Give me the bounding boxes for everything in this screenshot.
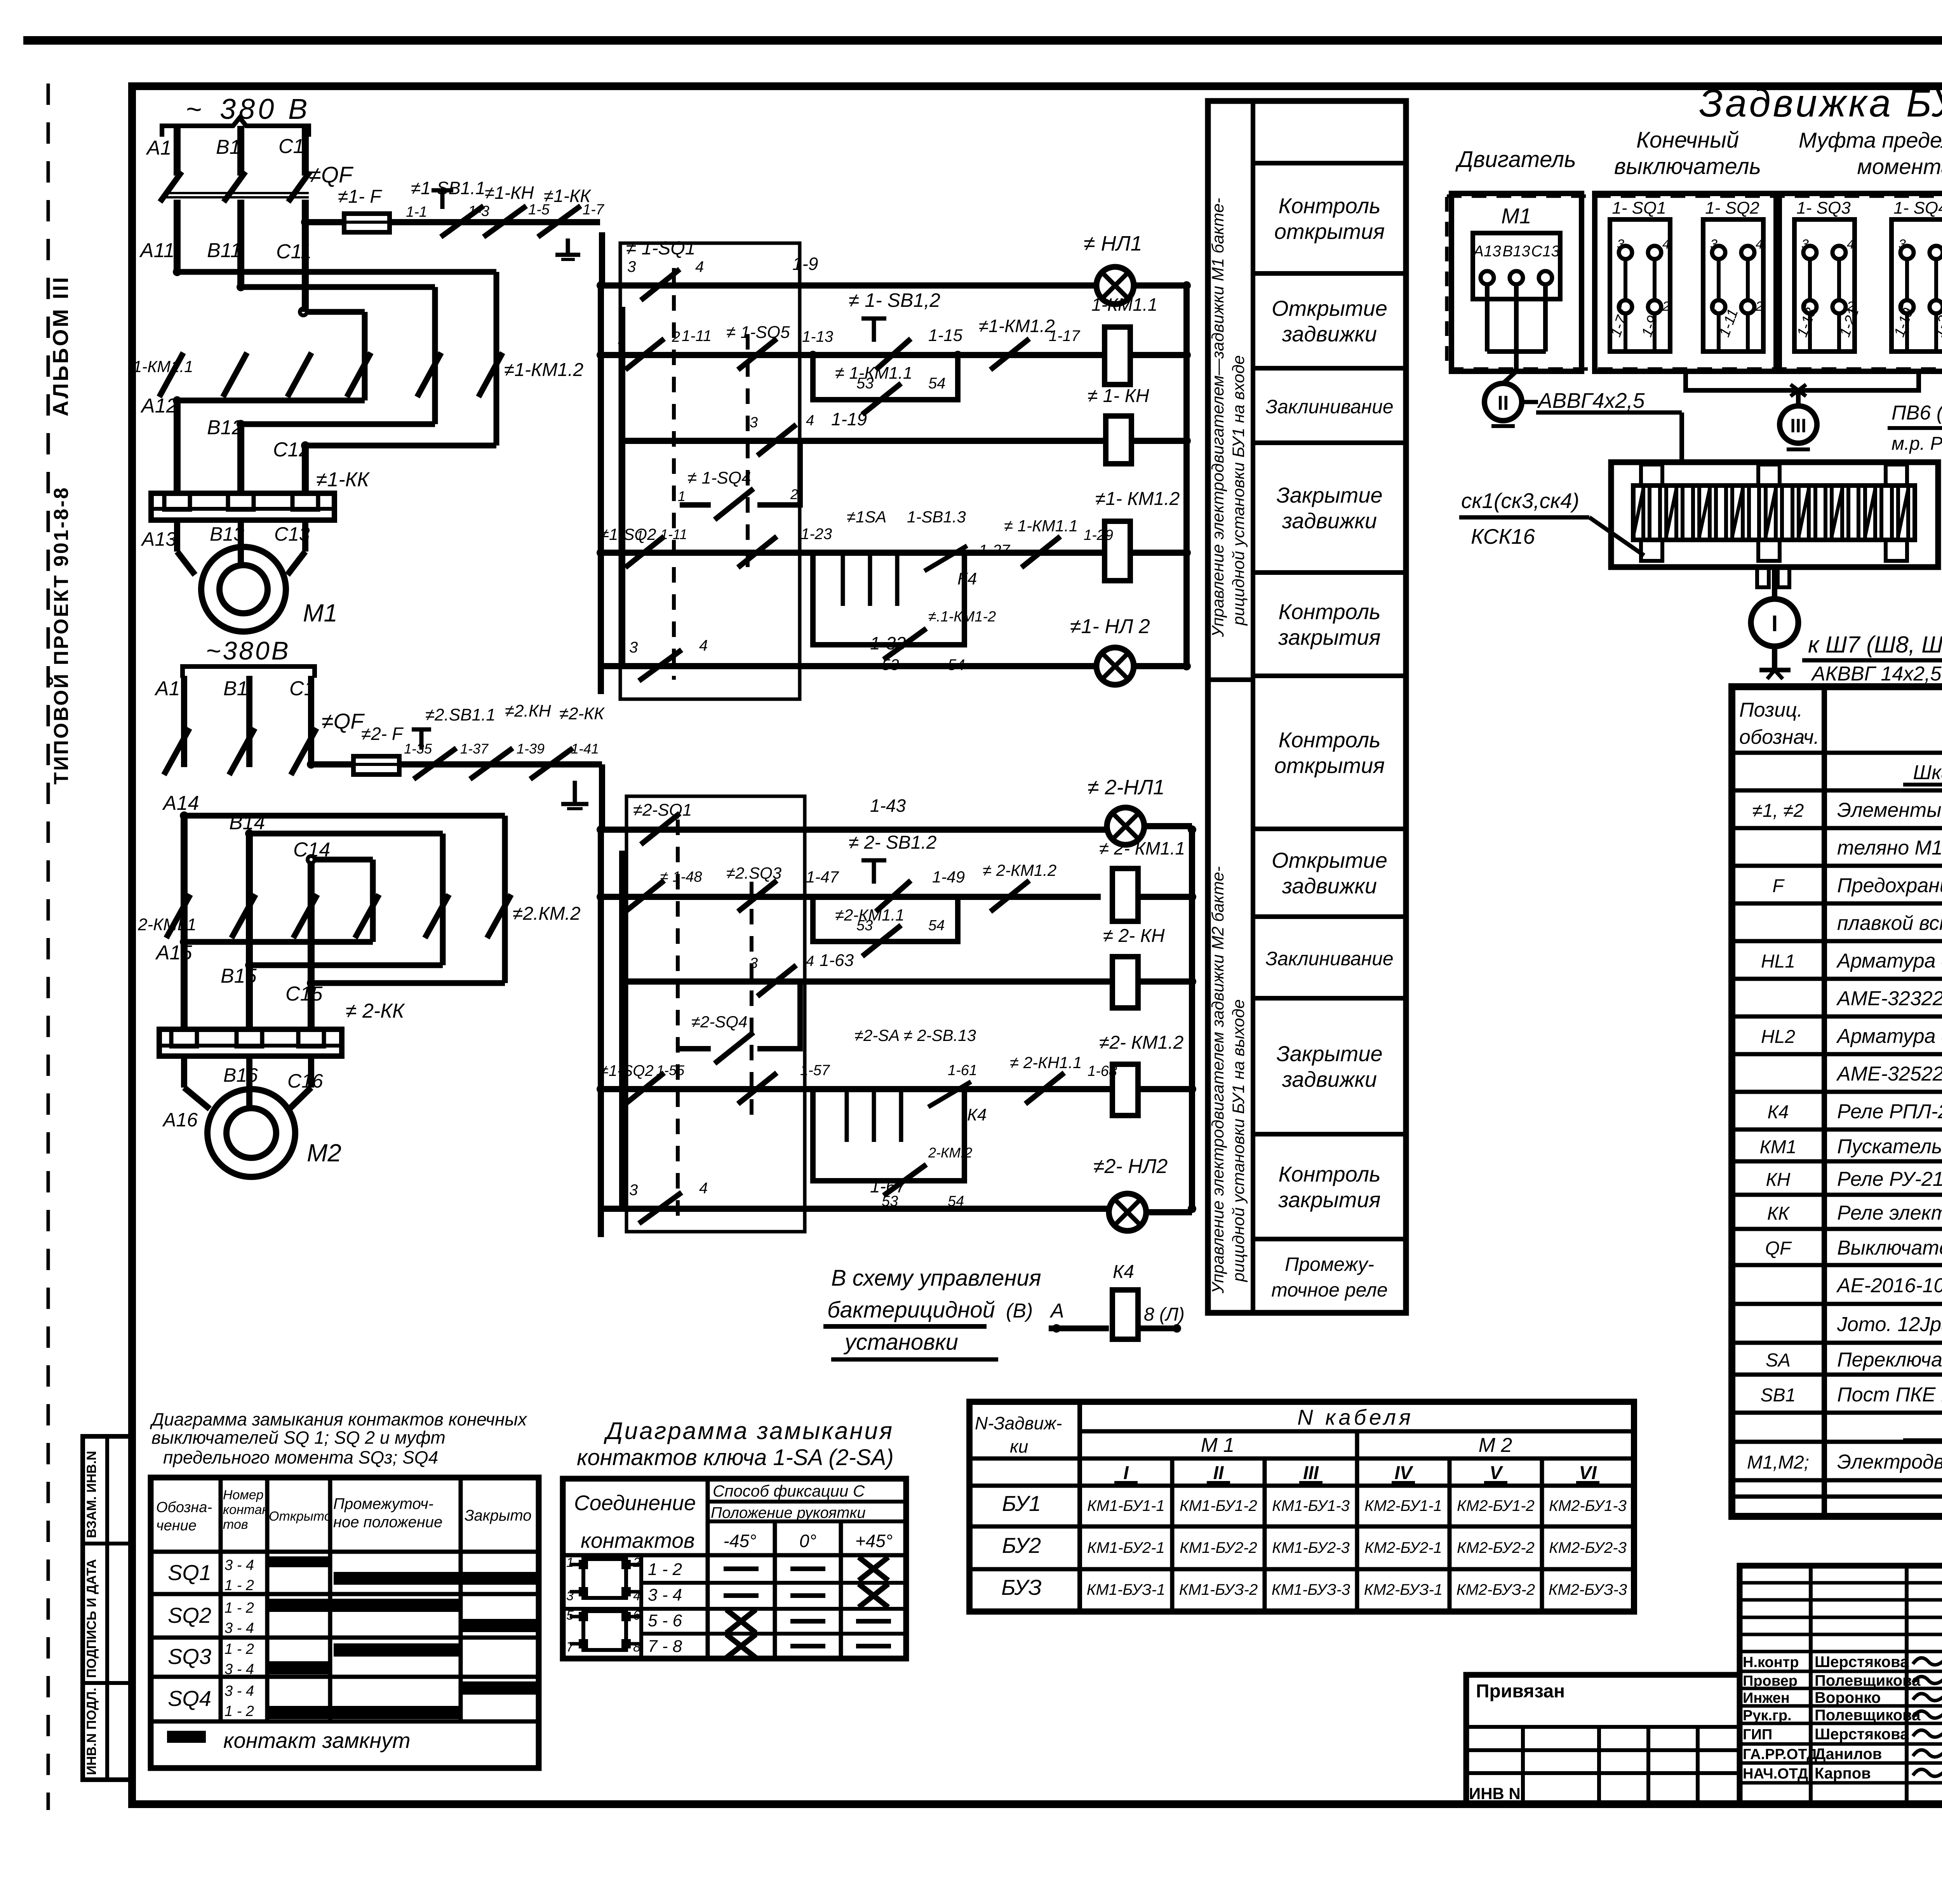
svg-text:1-67: 1-67 bbox=[870, 1176, 906, 1196]
svg-text:КСК16: КСК16 bbox=[1471, 524, 1535, 548]
svg-text:Муфта предельного: Муфта предельного bbox=[1799, 128, 1942, 152]
svg-text:4: 4 bbox=[1756, 237, 1763, 252]
svg-text:1-23: 1-23 bbox=[801, 526, 832, 543]
svg-text:≠1- F: ≠1- F bbox=[338, 186, 382, 207]
svg-text:открытия: открытия bbox=[1274, 219, 1385, 244]
svg-text:1-37: 1-37 bbox=[460, 741, 489, 757]
svg-text:К4: К4 bbox=[957, 569, 977, 588]
svg-text:ГИП: ГИП bbox=[1743, 1726, 1772, 1743]
svg-text:Управление электродвигателем—з: Управление электродвигателем—задвижки М1… bbox=[1209, 198, 1227, 637]
svg-text:53: 53 bbox=[856, 375, 874, 392]
svg-text:М 1: М 1 bbox=[1201, 1434, 1235, 1457]
svg-text:задвижки: задвижки bbox=[1282, 508, 1377, 533]
svg-text:1-55: 1-55 bbox=[656, 1062, 685, 1078]
svg-text:рицидной установки БУ1 на выхо: рицидной установки БУ1 на выходе bbox=[1229, 999, 1248, 1283]
svg-text:≠1-SQ2: ≠1-SQ2 bbox=[600, 525, 656, 543]
svg-text:4: 4 bbox=[695, 258, 704, 275]
svg-text:Карпов: Карпов bbox=[1815, 1765, 1871, 1782]
svg-text:1-29: 1-29 bbox=[1084, 527, 1113, 543]
svg-text:С13: С13 bbox=[1531, 243, 1559, 260]
svg-text:А1: А1 bbox=[154, 677, 180, 700]
svg-text:1: 1 bbox=[566, 1555, 574, 1570]
svg-text:1 - 2: 1 - 2 bbox=[224, 1703, 254, 1720]
svg-text:3 - 4: 3 - 4 bbox=[224, 1620, 254, 1636]
svg-text:3 - 4: 3 - 4 bbox=[224, 1557, 254, 1573]
svg-text:КМ1-БУ2-3: КМ1-БУ2-3 bbox=[1272, 1539, 1350, 1556]
svg-text:Контроль: Контроль bbox=[1278, 727, 1380, 752]
svg-text:3: 3 bbox=[566, 1589, 574, 1603]
svg-text:+45°: +45° bbox=[855, 1531, 893, 1551]
svg-text:Данилов: Данилов bbox=[1815, 1746, 1882, 1763]
svg-text:Электродвигатель АОЛ-11-2ФЗ-38: Электродвигатель АОЛ-11-2ФЗ-380В-1,1кВт bbox=[1837, 1451, 1942, 1473]
svg-text:Полевщикова: Полевщикова bbox=[1815, 1707, 1921, 1724]
svg-text:≠ 2-КН1.1: ≠ 2-КН1.1 bbox=[1010, 1053, 1082, 1072]
svg-text:1-57: 1-57 bbox=[800, 1062, 830, 1079]
svg-text:А12: А12 bbox=[140, 395, 177, 417]
svg-text:М1,М2;: М1,М2; bbox=[1747, 1452, 1809, 1473]
svg-text:V: V bbox=[1490, 1463, 1503, 1483]
svg-text:1-13: 1-13 bbox=[802, 328, 833, 345]
svg-text:380 В: 380 В bbox=[220, 93, 310, 125]
svg-text:≠ НЛ1: ≠ НЛ1 bbox=[1084, 232, 1142, 255]
svg-text:Открыто: Открыто bbox=[269, 1509, 332, 1524]
svg-text:Закрытие: Закрытие bbox=[1276, 483, 1382, 507]
svg-text:6: 6 bbox=[633, 1608, 640, 1623]
svg-text:к Ш7 (Ш8, Ш9): к Ш7 (Ш8, Ш9) bbox=[1808, 632, 1942, 658]
svg-text:3: 3 bbox=[750, 414, 758, 431]
svg-text:КМ2-БУ2-2: КМ2-БУ2-2 bbox=[1457, 1539, 1535, 1556]
svg-text:КМ1-БУЗ-1: КМ1-БУЗ-1 bbox=[1087, 1581, 1165, 1598]
svg-text:Контроль: Контроль bbox=[1278, 1162, 1380, 1186]
svg-text:Рук.гр.: Рук.гр. bbox=[1743, 1707, 1792, 1724]
svg-text:1-43: 1-43 bbox=[870, 795, 906, 816]
svg-text:Закрытие: Закрытие bbox=[1276, 1041, 1382, 1066]
svg-text:≠2.SB1.1: ≠2.SB1.1 bbox=[425, 705, 496, 724]
svg-text:закрытия: закрытия bbox=[1278, 625, 1380, 649]
svg-text:М2: М2 bbox=[307, 1139, 341, 1167]
svg-text:≠1- НЛ 2: ≠1- НЛ 2 bbox=[1070, 615, 1150, 638]
svg-text:ГА.РР.ОТД: ГА.РР.ОТД bbox=[1743, 1746, 1817, 1763]
svg-text:КК: КК bbox=[1767, 1203, 1790, 1224]
svg-text:НАЧ.ОТД: НАЧ.ОТД bbox=[1743, 1766, 1808, 1782]
svg-text:Открытие: Открытие bbox=[1272, 848, 1387, 872]
svg-text:4: 4 bbox=[806, 412, 814, 429]
svg-text:В13: В13 bbox=[210, 523, 244, 545]
svg-text:≠2-SA ≠ 2-SB.13: ≠2-SA ≠ 2-SB.13 bbox=[854, 1026, 976, 1044]
svg-text:3: 3 bbox=[1898, 237, 1906, 252]
svg-text:1-КМ1.1: 1-КМ1.1 bbox=[133, 357, 193, 376]
svg-text:1 - 2: 1 - 2 bbox=[648, 1560, 682, 1579]
svg-text:Позиц.: Позиц. bbox=[1739, 699, 1803, 721]
svg-text:2: 2 bbox=[1755, 299, 1763, 314]
svg-text:3: 3 bbox=[1710, 237, 1718, 252]
svg-text:2: 2 bbox=[790, 486, 798, 502]
svg-text:АКВВГ 14х2,5: АКВВГ 14х2,5 bbox=[1811, 663, 1942, 685]
svg-text:КМ1-БУ1-3: КМ1-БУ1-3 bbox=[1272, 1497, 1350, 1514]
svg-text:Элементы управления электродви: Элементы управления электродвига- bbox=[1837, 799, 1942, 821]
svg-text:≠2- F: ≠2- F bbox=[361, 724, 404, 744]
svg-text:контактов ключа 1-SA (2-SA): контактов ключа 1-SA (2-SA) bbox=[577, 1445, 894, 1470]
svg-text:АЕ-2016-10НУЗ. 380В, 50Гц Jрас: АЕ-2016-10НУЗ. 380В, 50Гц Jрасч. 5А bbox=[1836, 1274, 1942, 1297]
svg-text:ИНВ N:: ИНВ N: bbox=[1469, 1784, 1526, 1803]
svg-text:4: 4 bbox=[633, 1589, 640, 1603]
svg-text:ки: ки bbox=[1010, 1436, 1028, 1457]
svg-text:3: 3 bbox=[1801, 237, 1809, 252]
svg-text:БУЗ: БУЗ bbox=[1001, 1575, 1042, 1599]
svg-text:≠ 1- SB1,2: ≠ 1- SB1,2 bbox=[849, 289, 940, 311]
svg-text:КМ1-БУ2-1: КМ1-БУ2-1 bbox=[1087, 1539, 1165, 1556]
svg-text:обознач.: обознач. bbox=[1739, 726, 1819, 748]
svg-text:Шерстякова: Шерстякова bbox=[1815, 1726, 1909, 1743]
svg-text:А14: А14 bbox=[162, 792, 199, 815]
svg-text:≠2-SQ1: ≠2-SQ1 bbox=[633, 801, 692, 820]
svg-text:≠1-КМ1.2: ≠1-КМ1.2 bbox=[504, 360, 583, 380]
svg-text:≠ 2-КК: ≠ 2-КК bbox=[346, 1000, 405, 1022]
svg-text:53: 53 bbox=[856, 917, 873, 934]
svg-text:Промежу-: Промежу- bbox=[1285, 1253, 1374, 1275]
svg-text:≠ 2-НЛ1: ≠ 2-НЛ1 bbox=[1088, 776, 1165, 799]
svg-text:1- SQ2: 1- SQ2 bbox=[1705, 198, 1759, 218]
svg-text:III: III bbox=[1790, 415, 1806, 437]
svg-text:задвижки: задвижки bbox=[1282, 1067, 1377, 1091]
svg-text:Способ фиксации С: Способ фиксации С bbox=[713, 1482, 865, 1500]
svg-text:теляно М1, М2.: теляно М1, М2. bbox=[1837, 837, 1942, 859]
svg-text:М1: М1 bbox=[303, 599, 338, 627]
svg-text:54: 54 bbox=[928, 917, 945, 934]
svg-text:Привязан: Привязан bbox=[1476, 1681, 1565, 1702]
svg-text:КМ2-БУ1-1: КМ2-БУ1-1 bbox=[1364, 1497, 1442, 1514]
svg-text:Контроль: Контроль bbox=[1278, 599, 1380, 624]
svg-text:2-КМ.2: 2-КМ.2 bbox=[928, 1145, 972, 1161]
svg-text:≠1- КМ1.2: ≠1- КМ1.2 bbox=[1095, 489, 1180, 509]
svg-text:Открытие: Открытие bbox=[1272, 296, 1387, 320]
svg-text:1-3: 1-3 bbox=[468, 203, 489, 219]
svg-text:ск1(ск3,ск4): ск1(ск3,ск4) bbox=[1461, 489, 1579, 513]
svg-text:Заклинивание: Заклинивание bbox=[1265, 948, 1393, 969]
svg-text:КМ1-БУЗ-3: КМ1-БУЗ-3 bbox=[1272, 1581, 1350, 1598]
svg-text:≠ 1-SQ1: ≠ 1-SQ1 bbox=[626, 238, 695, 259]
svg-text:5: 5 bbox=[566, 1608, 574, 1623]
svg-text:Шерстякова: Шерстякова bbox=[1815, 1653, 1909, 1671]
svg-text:3: 3 bbox=[627, 258, 636, 275]
svg-text:ИНВ.N ПОДЛ.: ИНВ.N ПОДЛ. bbox=[84, 1688, 99, 1775]
svg-text:Выключатель автоматический: Выключатель автоматический bbox=[1837, 1237, 1942, 1259]
svg-text:плавкой вставкой ПВДТ-1УЗ: плавкой вставкой ПВДТ-1УЗ bbox=[1837, 912, 1942, 935]
svg-text:закрытия: закрытия bbox=[1278, 1187, 1380, 1212]
svg-text:В1: В1 bbox=[216, 136, 241, 158]
svg-text:≠2.SQ3: ≠2.SQ3 bbox=[726, 864, 781, 882]
svg-text:≠1-КМ1.2: ≠1-КМ1.2 bbox=[979, 316, 1055, 336]
svg-text:≠ 2- КМ1.1: ≠ 2- КМ1.1 bbox=[1099, 838, 1185, 858]
svg-text:3: 3 bbox=[629, 1182, 638, 1199]
svg-text:1-41: 1-41 bbox=[571, 741, 599, 757]
svg-text:Конечный: Конечный bbox=[1636, 127, 1739, 153]
svg-text:4: 4 bbox=[806, 953, 814, 969]
svg-text:КН: КН bbox=[1766, 1170, 1791, 1190]
svg-text:точное реле: точное реле bbox=[1271, 1279, 1388, 1301]
svg-text:ПОДПИСЬ И ДАТА: ПОДПИСЬ И ДАТА bbox=[84, 1559, 99, 1678]
svg-text:≠2- КМ1.2: ≠2- КМ1.2 bbox=[1099, 1032, 1183, 1053]
svg-text:SQ2: SQ2 bbox=[168, 1603, 211, 1627]
svg-text:≠QF: ≠QF bbox=[322, 709, 365, 733]
svg-text:III: III bbox=[1303, 1463, 1319, 1483]
svg-text:Шкаф управления ш7 (ш8, ш9): Шкаф управления ш7 (ш8, ш9) bbox=[1913, 761, 1942, 784]
svg-text:Jото. 12Jрасч.; защита I Р00.: Jото. 12Jрасч.; защита I Р00. bbox=[1837, 1313, 1942, 1336]
svg-text:Пускатель ПМЛ150004~220В: Пускатель ПМЛ150004~220В bbox=[1837, 1135, 1942, 1158]
svg-text:м.р. РЗ-Ц-Х29: м.р. РЗ-Ц-Х29 bbox=[1892, 433, 1942, 454]
svg-text:3: 3 bbox=[750, 955, 758, 971]
svg-text:Арматура светосигнальная ~ 220: Арматура светосигнальная ~ 220В bbox=[1836, 1025, 1942, 1048]
svg-text:≠2.КМ.2: ≠2.КМ.2 bbox=[513, 903, 581, 924]
svg-text:≠ 1-SQ5: ≠ 1-SQ5 bbox=[726, 323, 790, 342]
svg-text:SQ3: SQ3 bbox=[168, 1644, 211, 1669]
svg-text:1 - 2: 1 - 2 bbox=[224, 1641, 254, 1657]
svg-text:Диаграмма замыкания контактов: Диаграмма замыкания контактов конечных bbox=[150, 1409, 527, 1429]
svg-text:HL1: HL1 bbox=[1761, 951, 1795, 972]
svg-text:SA: SA bbox=[1766, 1350, 1791, 1371]
svg-text:≠2- НЛ2: ≠2- НЛ2 bbox=[1093, 1155, 1168, 1178]
svg-text:Контроль: Контроль bbox=[1278, 193, 1380, 218]
svg-text:Предохранитель ПРС-6УЗ-П с: Предохранитель ПРС-6УЗ-П с bbox=[1837, 874, 1942, 897]
svg-text:≠ 1- КН: ≠ 1- КН bbox=[1088, 386, 1149, 406]
svg-text:А13: А13 bbox=[1472, 243, 1501, 260]
svg-text:≠.1-КМ1-2: ≠.1-КМ1-2 bbox=[928, 609, 996, 625]
svg-text:Пост ПКЕ 112-3УЗ „откр",„закр": Пост ПКЕ 112-3УЗ „откр",„закр",„откл." bbox=[1837, 1384, 1942, 1406]
svg-text:ВЗАМ. ИНВ.N: ВЗАМ. ИНВ.N bbox=[84, 1451, 99, 1538]
svg-text:1-КМ1.1: 1-КМ1.1 bbox=[1091, 294, 1157, 315]
svg-text:Провер: Провер bbox=[1743, 1673, 1798, 1689]
svg-text:QF: QF bbox=[1765, 1238, 1792, 1259]
svg-text:≠ 1-КМ1.1: ≠ 1-КМ1.1 bbox=[835, 364, 912, 383]
svg-text:КМ2-БУЗ-1: КМ2-БУЗ-1 bbox=[1364, 1581, 1443, 1598]
svg-text:БУ1: БУ1 bbox=[1002, 1491, 1041, 1516]
svg-text:F: F bbox=[1772, 876, 1785, 896]
svg-text:М1: М1 bbox=[1501, 204, 1531, 228]
svg-text:К4: К4 bbox=[967, 1105, 987, 1124]
svg-text:выключателей SQ 1; SQ 2 и муфт: выключателей SQ 1; SQ 2 и муфт bbox=[151, 1427, 445, 1448]
svg-text:Заклинивание: Заклинивание bbox=[1265, 396, 1393, 418]
svg-text:В11: В11 bbox=[207, 239, 242, 262]
svg-text:1-17: 1-17 bbox=[1049, 327, 1081, 345]
svg-text:Реле электротепловое РТЛ 10070: Реле электротепловое РТЛ 100704 bbox=[1837, 1202, 1942, 1224]
svg-text:≠1-SB1.1: ≠1-SB1.1 bbox=[411, 178, 485, 198]
svg-text:АМЕ-3232292: АМЕ-3232292 bbox=[1836, 987, 1942, 1010]
svg-text:HL2: HL2 bbox=[1761, 1027, 1795, 1047]
svg-text:-45°: -45° bbox=[724, 1531, 757, 1551]
svg-text:7: 7 bbox=[566, 1640, 574, 1655]
svg-text:1-11: 1-11 bbox=[660, 526, 687, 542]
svg-text:контак: контак bbox=[223, 1502, 269, 1517]
svg-text:1-1: 1-1 bbox=[406, 204, 427, 220]
svg-text:1-19: 1-19 bbox=[831, 409, 867, 429]
svg-text:КМ1-БУ2-2: КМ1-БУ2-2 bbox=[1180, 1539, 1257, 1556]
svg-text:контакт замкнут: контакт замкнут bbox=[223, 1728, 411, 1753]
svg-text:Воронко: Воронко bbox=[1815, 1689, 1881, 1706]
svg-text:1-5: 1-5 bbox=[528, 202, 550, 218]
svg-text:Промежуточ-: Промежуточ- bbox=[333, 1495, 433, 1512]
svg-text:8 (Л): 8 (Л) bbox=[1144, 1304, 1185, 1325]
svg-text:1-61: 1-61 bbox=[948, 1062, 977, 1079]
svg-text:5 - 6: 5 - 6 bbox=[648, 1611, 682, 1630]
svg-text:Н.контр: Н.контр bbox=[1743, 1654, 1799, 1671]
svg-text:1-35: 1-35 bbox=[404, 741, 432, 757]
svg-text:Обозна-: Обозна- bbox=[156, 1499, 212, 1516]
svg-text:≠1, ≠2: ≠1, ≠2 bbox=[1752, 801, 1804, 821]
svg-text:1: 1 bbox=[678, 488, 686, 504]
svg-text:ТИПОВОЙ ПРОЕКТ 901-8-8: ТИПОВОЙ ПРОЕКТ 901-8-8 bbox=[50, 486, 73, 785]
svg-text:КМ2-БУ2-1: КМ2-БУ2-1 bbox=[1364, 1539, 1442, 1556]
svg-text:1-9: 1-9 bbox=[792, 254, 818, 274]
svg-text:Управление электродвигателем з: Управление электродвигателем задвижки М2… bbox=[1209, 866, 1227, 1294]
svg-text:1- SQ4: 1- SQ4 bbox=[1893, 198, 1942, 218]
svg-text:КМ2-БУ1-3: КМ2-БУ1-3 bbox=[1549, 1497, 1627, 1514]
svg-text:N кабеля: N кабеля bbox=[1297, 1405, 1414, 1429]
svg-text:Положение рукоятки: Положение рукоятки bbox=[711, 1504, 866, 1521]
svg-text:В16: В16 bbox=[223, 1064, 258, 1086]
svg-text:чение: чение bbox=[156, 1518, 197, 1534]
svg-text:1-SB1.3: 1-SB1.3 bbox=[907, 508, 966, 526]
svg-text:АЛЬБОМ III: АЛЬБОМ III bbox=[48, 275, 73, 416]
svg-text:SQ1: SQ1 bbox=[168, 1560, 211, 1585]
svg-text:А16: А16 bbox=[162, 1109, 198, 1131]
svg-text:4: 4 bbox=[699, 637, 708, 654]
svg-text:≠ 1-SQ4: ≠ 1-SQ4 bbox=[687, 468, 751, 487]
svg-text:≠1-SQ2: ≠1-SQ2 bbox=[600, 1062, 654, 1079]
svg-text:задвижки: задвижки bbox=[1282, 322, 1377, 346]
svg-text:≠2-КК: ≠2-КК bbox=[559, 704, 605, 723]
svg-text:Реле РУ-21 У4 утопленного монт: Реле РУ-21 У4 утопленного монтажа bbox=[1837, 1168, 1942, 1190]
svg-text:≠1-КН: ≠1-КН bbox=[485, 183, 534, 203]
svg-text:ПВ6 (4х1): ПВ6 (4х1) bbox=[1892, 402, 1942, 424]
svg-text:4: 4 bbox=[699, 1180, 708, 1197]
svg-text:3: 3 bbox=[629, 639, 638, 656]
svg-text:предельного момента SQз; SQ4: предельного момента SQз; SQ4 bbox=[163, 1447, 438, 1467]
svg-text:≠ 2- SB1.2: ≠ 2- SB1.2 bbox=[849, 832, 936, 853]
svg-text:3 - 4: 3 - 4 bbox=[648, 1586, 682, 1605]
svg-text:Переключатель ПКУ-3-12С-2001 У: Переключатель ПКУ-3-12С-2001 УЗ bbox=[1837, 1349, 1942, 1371]
svg-text:SB1: SB1 bbox=[1761, 1385, 1796, 1406]
svg-text:С1: С1 bbox=[278, 135, 304, 158]
svg-text:А: А bbox=[1049, 1300, 1064, 1322]
svg-text:ное положение: ное положение bbox=[333, 1514, 442, 1531]
svg-text:IV: IV bbox=[1394, 1463, 1413, 1483]
svg-text:КМ1-БУЗ-2: КМ1-БУЗ-2 bbox=[1179, 1581, 1258, 1598]
svg-text:I: I bbox=[1123, 1463, 1129, 1483]
svg-text:КМ2-БУЗ-3: КМ2-БУЗ-3 bbox=[1549, 1581, 1627, 1598]
svg-text:рицидной установки БУ1 на вход: рицидной установки БУ1 на входе bbox=[1229, 355, 1248, 626]
svg-text:контактов: контактов bbox=[581, 1528, 695, 1552]
svg-text:Закрыто: Закрыто bbox=[465, 1507, 531, 1524]
svg-text:установки: установки bbox=[843, 1330, 958, 1355]
svg-text:~380В: ~380В bbox=[206, 636, 291, 665]
svg-text:1 - 2: 1 - 2 bbox=[224, 1577, 254, 1594]
svg-text:1-27: 1-27 bbox=[979, 542, 1011, 559]
svg-text:I: I bbox=[1771, 611, 1778, 636]
svg-text:3 - 4: 3 - 4 bbox=[224, 1683, 254, 1699]
svg-text:≠QF: ≠QF bbox=[309, 162, 354, 188]
svg-text:7 - 8: 7 - 8 bbox=[648, 1637, 682, 1656]
svg-text:≠ 2- КН: ≠ 2- КН bbox=[1103, 926, 1165, 946]
svg-text:II: II bbox=[1498, 392, 1509, 414]
svg-text:3 - 4: 3 - 4 bbox=[224, 1661, 254, 1678]
svg-text:≠1-КК: ≠1-КК bbox=[316, 468, 370, 491]
svg-text:3: 3 bbox=[1617, 237, 1624, 252]
svg-text:АМЕ-3252292: АМЕ-3252292 bbox=[1836, 1063, 1942, 1085]
svg-text:1-47: 1-47 bbox=[806, 868, 839, 886]
svg-text:≠2.КН: ≠2.КН bbox=[505, 701, 551, 721]
svg-text:1-15: 1-15 bbox=[928, 326, 963, 345]
svg-text:тов: тов bbox=[223, 1517, 248, 1532]
svg-text:≠ 1-48: ≠ 1-48 bbox=[660, 869, 702, 885]
svg-text:1- SQ3: 1- SQ3 bbox=[1796, 198, 1851, 218]
svg-text:КМ2-БУЗ-2: КМ2-БУЗ-2 bbox=[1456, 1581, 1535, 1598]
svg-text:SQ4: SQ4 bbox=[168, 1686, 211, 1711]
svg-text:Диаграмма замыкания: Диаграмма замыкания bbox=[604, 1418, 894, 1445]
svg-text:С15: С15 bbox=[285, 983, 323, 1005]
svg-text:С13: С13 bbox=[274, 523, 310, 545]
svg-text:КМ2-БУ2-3: КМ2-БУ2-3 bbox=[1549, 1539, 1627, 1556]
svg-text:≠1SA: ≠1SA bbox=[847, 508, 886, 526]
svg-text:А1: А1 bbox=[146, 137, 172, 159]
svg-text:1: 1 bbox=[618, 331, 626, 347]
svg-text:4: 4 bbox=[1662, 237, 1670, 252]
svg-text:Соединение: Соединение bbox=[574, 1491, 696, 1515]
svg-text:≠ 1-КМ1.1: ≠ 1-КМ1.1 bbox=[1004, 517, 1078, 535]
svg-text:открытия: открытия bbox=[1274, 753, 1385, 778]
svg-text:бактерицидной: бактерицидной bbox=[827, 1297, 995, 1323]
svg-text:8: 8 bbox=[633, 1640, 640, 1655]
svg-text:1: 1 bbox=[1617, 299, 1624, 314]
svg-text:4: 4 bbox=[1847, 237, 1854, 252]
svg-text:0°: 0° bbox=[799, 1531, 816, 1551]
svg-text:А13: А13 bbox=[141, 528, 176, 550]
svg-text:Реле РПЛ-2204 ~ 220В 50Гц: Реле РПЛ-2204 ~ 220В 50Гц bbox=[1837, 1100, 1942, 1123]
svg-text:II: II bbox=[1213, 1463, 1224, 1483]
svg-text:≠2-SQ4: ≠2-SQ4 bbox=[691, 1013, 747, 1031]
svg-text:1-49: 1-49 bbox=[932, 868, 965, 886]
svg-text:(В): (В) bbox=[1006, 1300, 1033, 1322]
svg-text:БУ2: БУ2 bbox=[1002, 1533, 1041, 1558]
svg-text:Номер: Номер bbox=[223, 1488, 264, 1502]
svg-text:М 2: М 2 bbox=[1479, 1434, 1512, 1457]
svg-text:1-63: 1-63 bbox=[820, 951, 854, 970]
svg-text:АВВГ4х2,5: АВВГ4х2,5 bbox=[1537, 388, 1645, 412]
svg-text:2: 2 bbox=[672, 329, 680, 345]
svg-text:1-39: 1-39 bbox=[517, 741, 545, 757]
svg-text:КМ1-БУ1-2: КМ1-БУ1-2 bbox=[1180, 1497, 1257, 1514]
svg-text:момента: момента bbox=[1857, 154, 1942, 179]
svg-text:Арматура светосигнальная ~220В: Арматура светосигнальная ~220В bbox=[1836, 950, 1942, 972]
svg-text:К4: К4 bbox=[1113, 1262, 1134, 1282]
svg-text:2: 2 bbox=[1662, 299, 1670, 314]
svg-text:1 - 2: 1 - 2 bbox=[224, 1600, 254, 1616]
svg-text:А11: А11 bbox=[139, 239, 175, 262]
svg-text:2-КМL1: 2-КМL1 bbox=[137, 915, 197, 934]
svg-text:1-33: 1-33 bbox=[870, 633, 906, 653]
svg-text:С11: С11 bbox=[276, 240, 312, 263]
svg-text:КМ1-БУ1-1: КМ1-БУ1-1 bbox=[1087, 1497, 1165, 1514]
svg-text:выключатель: выключатель bbox=[1614, 154, 1761, 179]
svg-text:В схему управления: В схему управления bbox=[831, 1265, 1041, 1291]
svg-text:54: 54 bbox=[928, 375, 946, 392]
svg-text:Задвижка БУ1 (БУ2, БУЗ): Задвижка БУ1 (БУ2, БУЗ) bbox=[1699, 82, 1942, 125]
svg-text:К4: К4 bbox=[1768, 1102, 1789, 1123]
svg-text:≠ 2-КМ1.2: ≠ 2-КМ1.2 bbox=[983, 861, 1056, 879]
svg-text:КМ2-БУ1-2: КМ2-БУ1-2 bbox=[1457, 1497, 1535, 1514]
svg-text:В1: В1 bbox=[223, 677, 248, 700]
svg-text:1- SQ1: 1- SQ1 bbox=[1612, 198, 1666, 218]
svg-text:Двигатель: Двигатель bbox=[1455, 147, 1576, 172]
